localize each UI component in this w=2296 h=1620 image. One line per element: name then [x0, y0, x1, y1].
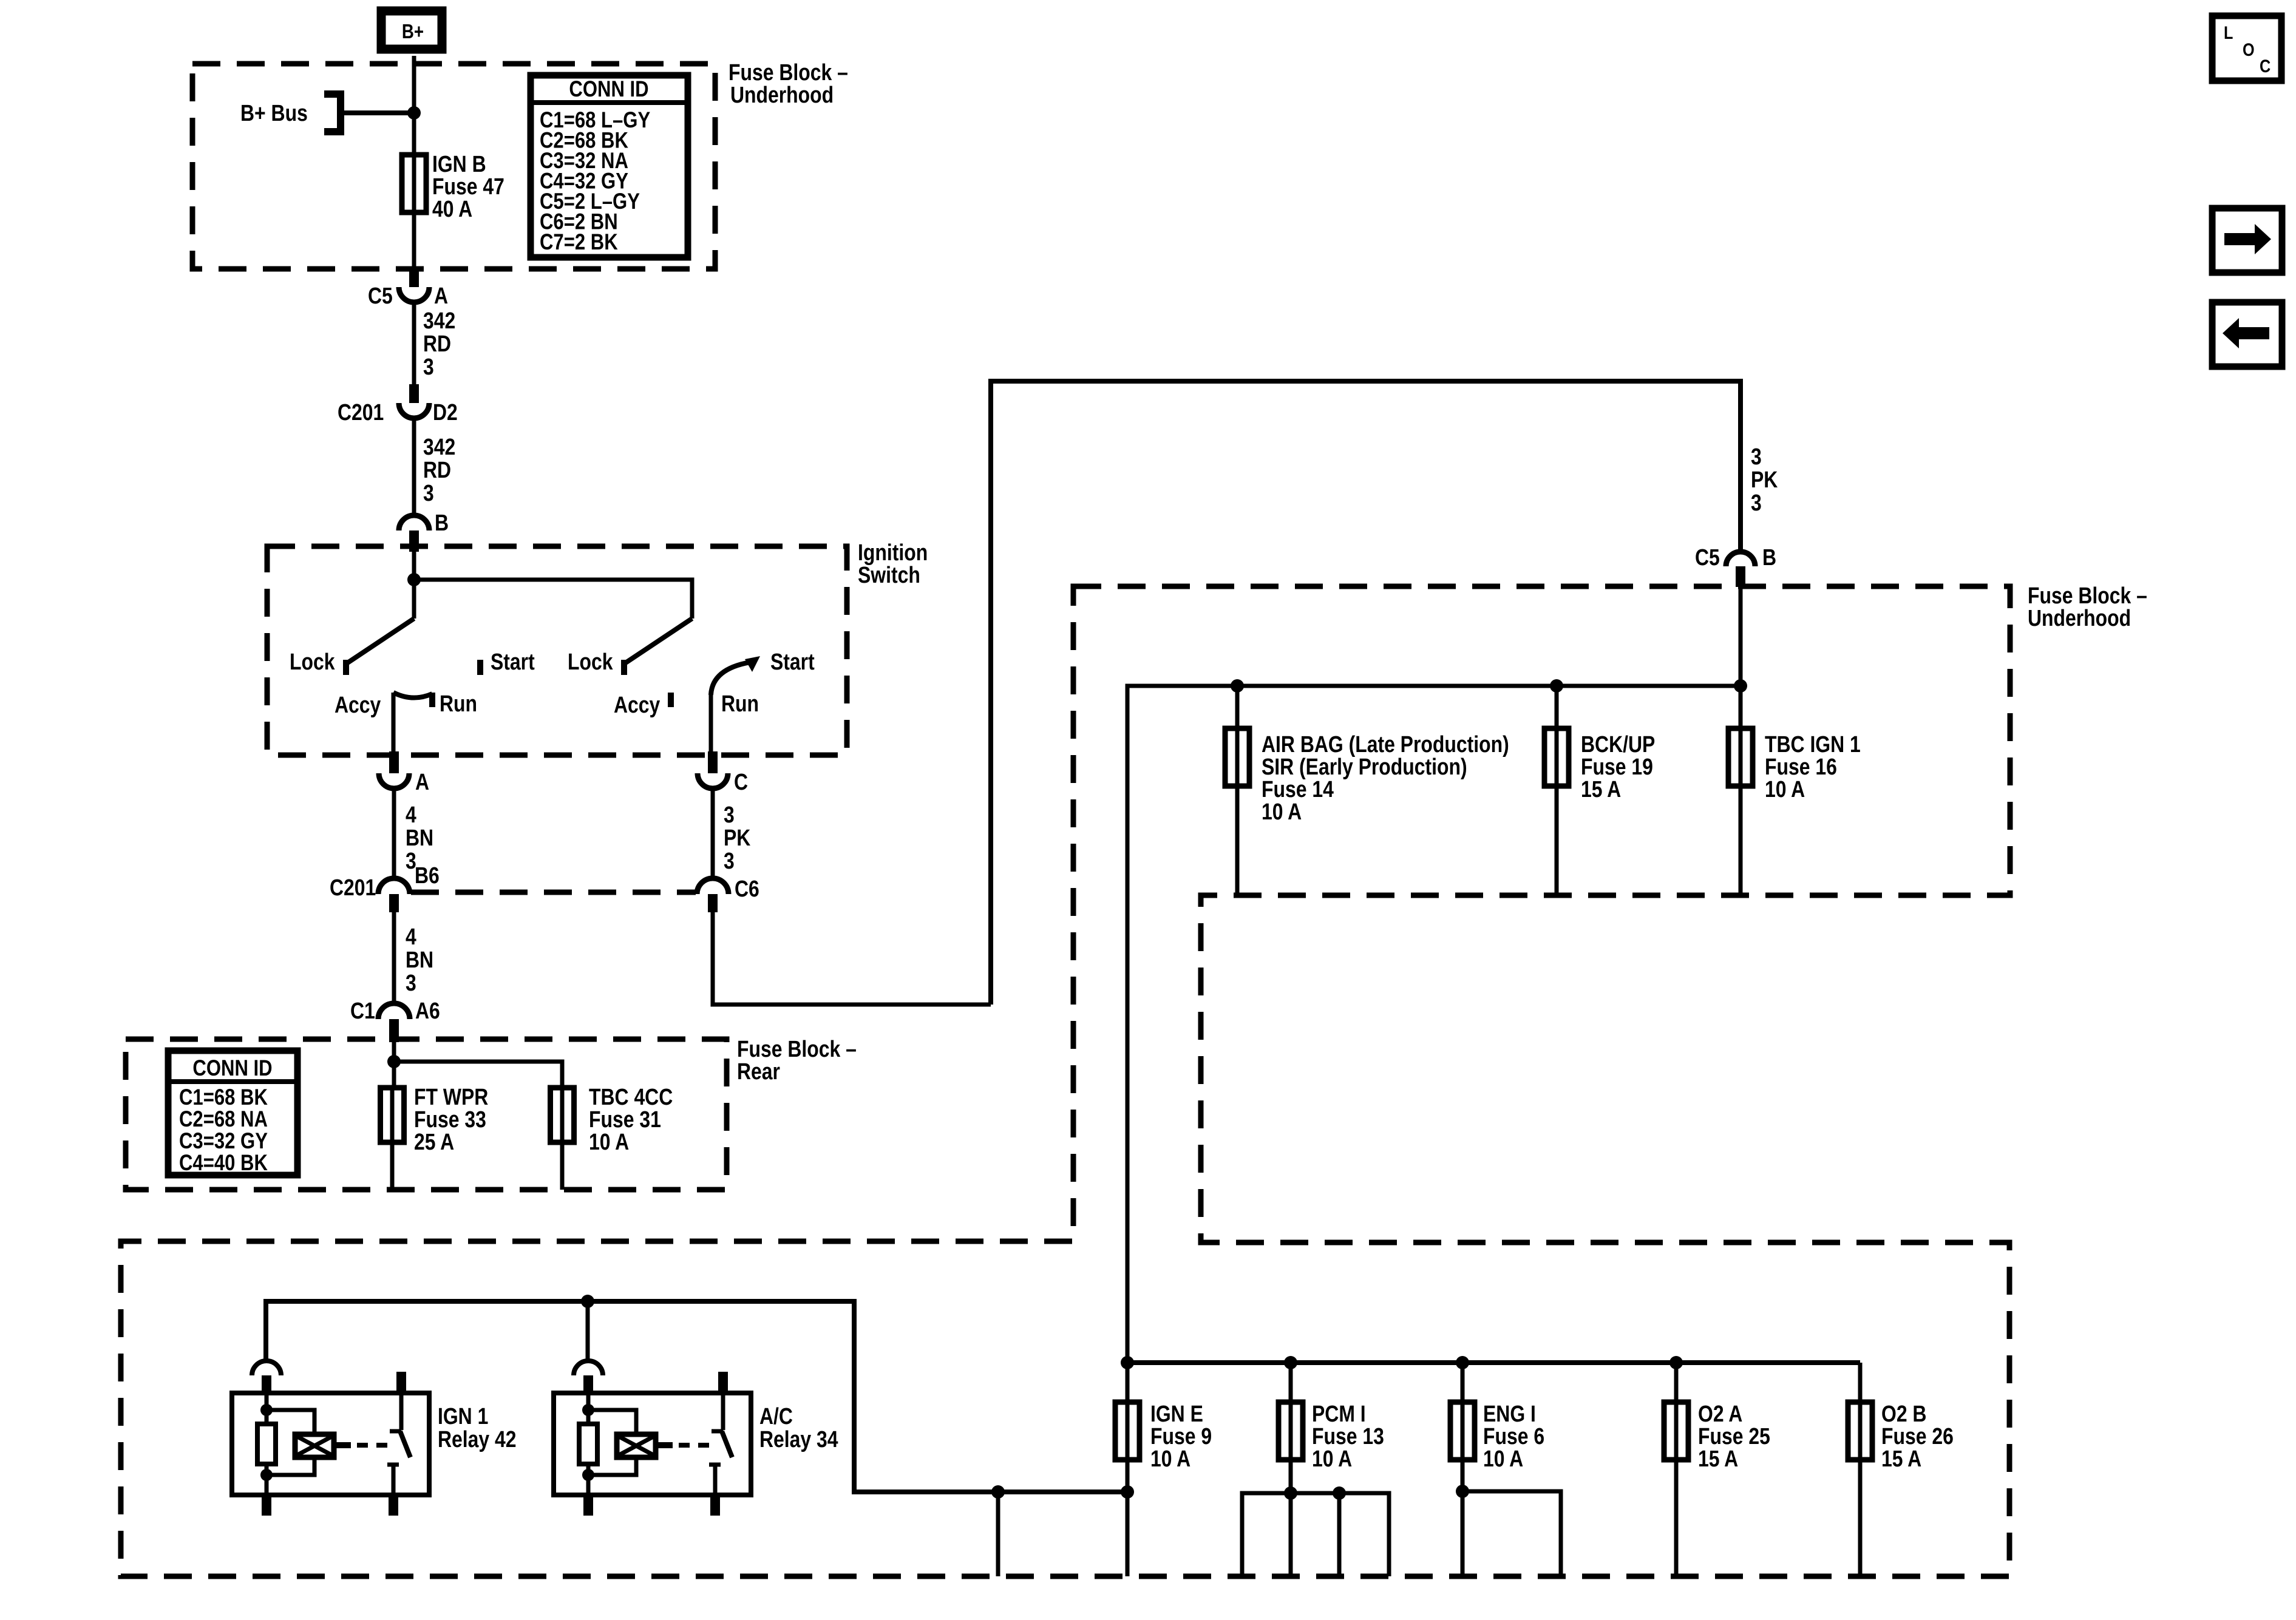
svg-text:Fuse 33: Fuse 33: [414, 1107, 486, 1132]
svg-text:B+ Bus: B+ Bus: [240, 100, 308, 126]
svg-text:C5: C5: [368, 283, 393, 308]
contact tick Accy (pole 2): [668, 693, 674, 707]
svg-text:342: 342: [423, 308, 455, 333]
svg-text:4: 4: [406, 924, 416, 949]
wire 342 RD segment 2: [412, 418, 416, 515]
svg-text:Fuse 26: Fuse 26: [1881, 1423, 1954, 1449]
svg-text:4: 4: [406, 802, 416, 827]
svg-text:Fuse Block –: Fuse Block –: [737, 1036, 857, 1062]
connector C201 pin D2 (inline): [409, 384, 419, 403]
wire: branch to fuse TBC 4CC: [394, 1062, 562, 1088]
junction: relay A/C feed tap: [581, 1295, 594, 1308]
svg-text:BN: BN: [406, 825, 433, 850]
wire: IGN E to block edge: [1126, 1492, 1130, 1576]
svg-text:15 A: 15 A: [1881, 1446, 1921, 1471]
wire: pole 2 Run contact with Start arrow: [709, 695, 713, 755]
switch pole 1 wiper to Lock: [412, 580, 416, 619]
svg-text:Switch: Switch: [858, 562, 920, 588]
wire: A6 into rear block: [392, 1042, 396, 1088]
svg-text:10 A: 10 A: [1150, 1446, 1190, 1471]
fuse ENG I Fuse 6 (symbol): [1461, 1363, 1465, 1402]
svg-text:TBC 4CC: TBC 4CC: [589, 1084, 673, 1110]
svg-text:PK: PK: [724, 825, 750, 850]
connector B (ignition switch input): [399, 515, 429, 530]
svg-text:CONN ID: CONN ID: [569, 77, 648, 102]
relay IGN 1 Relay 42: [252, 1361, 281, 1375]
junction: stub below relay feed: [991, 1485, 1005, 1499]
svg-text:SIR (Early Production): SIR (Early Production): [1262, 754, 1467, 779]
junction: IGN E output: [1121, 1485, 1134, 1499]
fuse BCK/UP Fuse 19 (symbol): [1555, 686, 1559, 728]
junction: rear block feed split: [387, 1055, 401, 1068]
Fuse Block - Rear dashed box: [126, 1039, 727, 1190]
svg-text:C: C: [2260, 56, 2271, 76]
wire: below fuse TBC 4CC: [560, 1142, 565, 1190]
connector C (ignition output): [708, 751, 718, 773]
wire: below fuse FT WPR: [390, 1142, 395, 1190]
wire: pole 1 output to connector A: [392, 693, 396, 757]
svg-text:Fuse 19: Fuse 19: [1581, 754, 1653, 779]
svg-text:Fuse 16: Fuse 16: [1765, 754, 1837, 779]
svg-text:3: 3: [423, 480, 434, 506]
junction: bus at TBC IGN 1 fuse: [1734, 679, 1747, 693]
svg-text:TBC IGN 1: TBC IGN 1: [1765, 731, 1861, 757]
svg-text:Lock: Lock: [568, 649, 613, 674]
connector C1 pin A6: [378, 1003, 410, 1019]
PCM I output wires to edge: [1242, 1493, 1389, 1576]
svg-text:25 A: 25 A: [414, 1129, 454, 1154]
svg-text:L: L: [2224, 22, 2233, 43]
bus wire (underhood ign feed): [1127, 686, 1741, 1363]
svg-text:40 A: 40 A: [432, 196, 472, 222]
Fuse Block - Underhood dashed box (top left): [192, 64, 715, 269]
connector C5 pin A (inline): [409, 269, 419, 287]
svg-text:A: A: [415, 769, 429, 795]
svg-text:B6: B6: [415, 863, 440, 888]
switch pole 2 wiper to Lock: [625, 619, 692, 663]
fuse AIR BAG/SIR Fuse 14 (symbol): [1235, 686, 1240, 728]
svg-text:Run: Run: [721, 691, 759, 716]
wire: feed to relay A/C: [586, 1301, 590, 1361]
svg-text:C7=2 BK: C7=2 BK: [540, 230, 618, 255]
svg-text:B: B: [1762, 544, 1776, 570]
wire: C5-B to bus: [1739, 587, 1743, 686]
svg-text:C1=68 BK: C1=68 BK: [179, 1085, 268, 1110]
svg-text:IGN E: IGN E: [1150, 1401, 1203, 1426]
connector C201 pin B6: [378, 878, 410, 894]
svg-text:RD: RD: [423, 457, 451, 483]
svg-text:Fuse 6: Fuse 6: [1483, 1423, 1544, 1449]
junction: bottom bus feed: [1121, 1356, 1134, 1369]
svg-text:C: C: [734, 769, 748, 795]
svg-text:AIR BAG (Late Production): AIR BAG (Late Production): [1262, 731, 1509, 757]
svg-text:FT WPR: FT WPR: [414, 1084, 488, 1110]
junction: switch feed split: [407, 573, 421, 586]
svg-text:BN: BN: [406, 947, 433, 972]
junction: bus at PCM I: [1284, 1356, 1297, 1369]
fuse TBC IGN 1 Fuse 16 (symbol): [1739, 686, 1743, 728]
svg-text:C6: C6: [735, 876, 759, 901]
svg-text:B: B: [435, 510, 449, 535]
junction: bus at ENG I: [1456, 1356, 1469, 1369]
svg-text:10 A: 10 A: [1765, 776, 1805, 802]
svg-text:15 A: 15 A: [1581, 776, 1621, 802]
wire: A to C201-B6: [392, 788, 396, 879]
svg-text:Start: Start: [491, 649, 535, 674]
svg-text:10 A: 10 A: [589, 1129, 629, 1154]
svg-text:Fuse 13: Fuse 13: [1312, 1423, 1384, 1449]
svg-text:Underhood: Underhood: [2028, 605, 2131, 631]
svg-text:Fuse 47: Fuse 47: [432, 174, 504, 199]
svg-text:BCK/UP: BCK/UP: [1581, 731, 1655, 757]
svg-text:Start: Start: [770, 649, 815, 674]
svg-text:Accy: Accy: [335, 692, 381, 717]
ENG I output wires to edge: [1462, 1491, 1561, 1576]
svg-text:PCM I: PCM I: [1312, 1401, 1366, 1426]
svg-text:ENG I: ENG I: [1483, 1401, 1536, 1426]
relay feed wire from IGN E output: [266, 1301, 1127, 1492]
svg-text:CONN ID: CONN ID: [192, 1056, 272, 1081]
wire: B+ terminal down to fuse IGN B: [412, 56, 416, 155]
wire: stub to block edge: [996, 1492, 1000, 1576]
svg-text:Underhood: Underhood: [730, 82, 834, 107]
wire: B into switch: [412, 551, 416, 580]
fuse PCM I Fuse 13 (symbol): [1289, 1363, 1293, 1402]
contact tick Run (pole 1): [429, 693, 435, 707]
svg-text:3: 3: [423, 354, 434, 379]
relay A/C Relay 34: [574, 1361, 603, 1375]
svg-text:RD: RD: [423, 331, 451, 356]
svg-text:Relay 34: Relay 34: [759, 1426, 838, 1452]
svg-text:IGN B: IGN B: [432, 151, 486, 177]
svg-text:C1: C1: [350, 998, 375, 1023]
svg-text:Fuse 14: Fuse 14: [1262, 776, 1334, 802]
svg-text:A: A: [434, 283, 448, 308]
svg-text:Fuse 9: Fuse 9: [1150, 1423, 1212, 1449]
fuse TBC 4CC Fuse 31 (symbol): [560, 1088, 565, 1142]
battery feed terminal B+: [381, 11, 442, 49]
svg-text:3: 3: [406, 970, 416, 995]
svg-text:Ignition: Ignition: [858, 540, 928, 565]
B+ Bus tap bracket: [324, 94, 341, 132]
arrow right legend box: [2212, 208, 2282, 273]
CONN ID table (rear): [168, 1051, 297, 1175]
wire: C to C6: [711, 788, 715, 879]
dashed connector line C201/C6: [411, 890, 696, 895]
svg-text:C201: C201: [330, 875, 376, 900]
wire: fuse IGN B to connector C5-A: [412, 212, 416, 269]
arrow left legend box: [2212, 302, 2282, 367]
svg-text:Fuse Block –: Fuse Block –: [2028, 583, 2147, 608]
svg-text:Fuse 25: Fuse 25: [1698, 1423, 1770, 1449]
svg-text:O2 B: O2 B: [1881, 1401, 1926, 1426]
junction: bus at AIR BAG fuse: [1231, 679, 1244, 693]
junction: bus at BCK/UP fuse: [1550, 679, 1563, 693]
Fuse Block - Underhood dashed outline (right+bottom): [121, 586, 2010, 1576]
svg-text:Lock: Lock: [290, 649, 335, 674]
svg-text:IGN 1: IGN 1: [438, 1403, 488, 1429]
svg-text:342: 342: [423, 434, 455, 459]
fuse IGN B Fuse 47 (symbol): [412, 155, 416, 212]
junction: PCM I output: [1284, 1486, 1297, 1500]
svg-text:3: 3: [1751, 490, 1762, 515]
svg-text:3: 3: [724, 848, 735, 873]
wire: C6 down and right (3 PK): [713, 912, 991, 1005]
connector C6: [697, 878, 729, 894]
junction: bus at O2 A: [1669, 1356, 1683, 1369]
LOC legend box: [2212, 16, 2281, 81]
svg-text:Fuse 31: Fuse 31: [589, 1107, 661, 1132]
svg-text:10 A: 10 A: [1312, 1446, 1352, 1471]
junction: PCM I output branch: [1333, 1486, 1346, 1500]
svg-text:Fuse Block –: Fuse Block –: [729, 59, 848, 85]
svg-text:C3=32 GY: C3=32 GY: [179, 1129, 268, 1154]
svg-text:B+: B+: [402, 21, 424, 43]
svg-text:A6: A6: [415, 998, 440, 1023]
svg-text:10 A: 10 A: [1262, 799, 1302, 824]
svg-text:10 A: 10 A: [1483, 1446, 1523, 1471]
fuse FT WPR Fuse 33 (symbol): [390, 1088, 395, 1142]
svg-text:Relay 42: Relay 42: [438, 1426, 517, 1452]
junction: ENG I output: [1456, 1485, 1469, 1498]
svg-text:PK: PK: [1751, 467, 1778, 492]
fuse O2 A Fuse 25 (symbol): [1674, 1363, 1679, 1402]
junction: B+ bus / fuse feed: [407, 106, 421, 120]
svg-text:C5: C5: [1695, 544, 1720, 570]
svg-text:C4=40 BK: C4=40 BK: [179, 1151, 268, 1176]
bridge arc Accy-Run (pole 1): [393, 693, 432, 698]
contact tick Start (pole 1): [477, 660, 483, 675]
Ignition Switch dashed box: [267, 546, 847, 755]
CONN ID table (underhood): [531, 75, 688, 257]
svg-text:C201: C201: [338, 399, 384, 425]
svg-text:C2=68 NA: C2=68 NA: [179, 1107, 268, 1132]
svg-text:Rear: Rear: [737, 1059, 780, 1084]
svg-text:D2: D2: [433, 399, 458, 425]
svg-text:O2 A: O2 A: [1698, 1401, 1742, 1426]
fuse IGN E Fuse 9 (symbol): [1126, 1363, 1130, 1402]
connector C5 pin B: [1726, 552, 1755, 566]
wire: 3 PK riser to C5-B: [991, 381, 1741, 1005]
wire: feed to pole 2: [414, 580, 692, 619]
svg-text:O: O: [2243, 39, 2255, 60]
fuse O2 B Fuse 26 (symbol): [1858, 1363, 1863, 1402]
wire 342 RD segment 1: [412, 302, 416, 384]
svg-text:3: 3: [1751, 444, 1762, 469]
svg-text:3: 3: [724, 802, 735, 827]
svg-text:Run: Run: [440, 691, 477, 716]
svg-text:15 A: 15 A: [1698, 1446, 1738, 1471]
wire: B6 to C1-A6: [392, 912, 396, 1003]
svg-text:Accy: Accy: [614, 692, 661, 717]
svg-text:A/C: A/C: [759, 1403, 793, 1429]
bus wire (bottom fuses): [1127, 1360, 1860, 1365]
connector A (ignition output): [389, 751, 399, 773]
